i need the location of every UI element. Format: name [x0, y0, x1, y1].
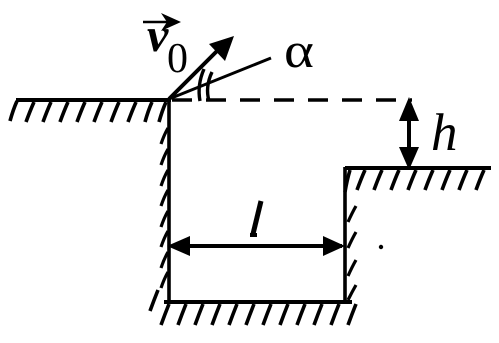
vector bar arrow over v0 : shaft	[143, 21, 172, 24]
angle arc mark (double stroke)	[199, 69, 204, 101]
vector bar arrow over v0 : head	[161, 13, 181, 31]
pit floor hatching	[150, 290, 356, 325]
label l	[253, 201, 261, 234]
right ledge hatching	[345, 170, 484, 192]
h dimension arrow shaft	[407, 108, 411, 160]
svg-text:h: h	[431, 104, 458, 162]
dashed horizontal reference line	[172, 98, 412, 102]
l arrow left head	[167, 236, 190, 256]
left ground surface line	[16, 98, 171, 102]
svg-text:α: α	[284, 22, 314, 78]
left wall hatch ticks	[161, 128, 168, 288]
velocity vector v0 arrow shaft	[169, 46, 222, 99]
angle reference line	[169, 58, 271, 99]
h arrow bottom head	[399, 147, 419, 170]
svg-text:0: 0	[167, 36, 188, 82]
right ledge surface line	[345, 166, 491, 170]
pit right wall	[343, 167, 347, 302]
pit floor line	[164, 300, 352, 304]
left ground hatching	[10, 101, 166, 122]
stray dot	[379, 245, 383, 249]
l arrow right head	[323, 236, 345, 256]
l dimension arrow shaft	[172, 244, 342, 248]
right wall hatch ticks	[348, 206, 356, 300]
pit left wall	[167, 100, 171, 302]
h arrow top head	[399, 97, 419, 121]
velocity vector v0 arrowhead	[209, 36, 234, 61]
